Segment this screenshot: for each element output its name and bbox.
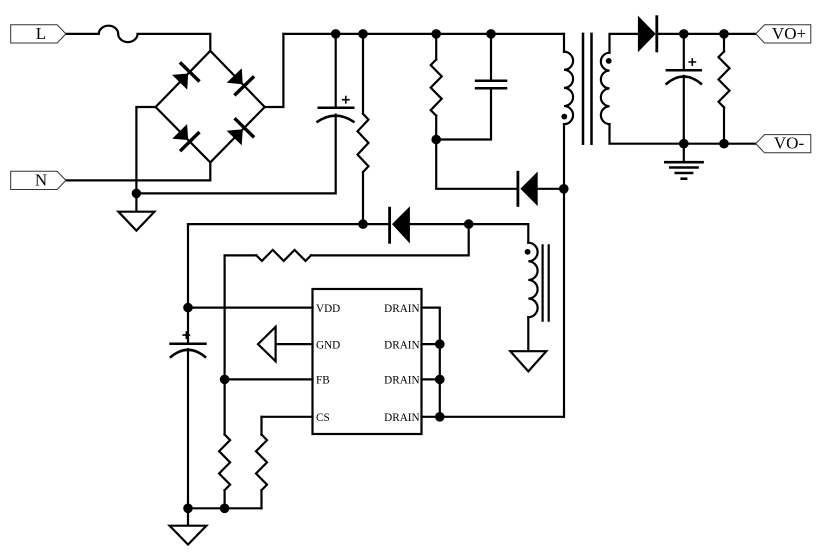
svg-text:VO+: VO+ bbox=[772, 24, 806, 43]
svg-text:VDD: VDD bbox=[316, 303, 340, 315]
svg-text:DRAIN: DRAIN bbox=[384, 339, 419, 351]
svg-text:DRAIN: DRAIN bbox=[384, 375, 419, 387]
svg-text:GND: GND bbox=[316, 339, 340, 351]
svg-text:L: L bbox=[36, 24, 46, 43]
svg-text:FB: FB bbox=[316, 375, 330, 387]
svg-text:CS: CS bbox=[316, 412, 330, 424]
svg-text:DRAIN: DRAIN bbox=[384, 303, 419, 315]
svg-text:N: N bbox=[35, 171, 47, 190]
svg-text:VO-: VO- bbox=[774, 134, 805, 153]
svg-text:DRAIN: DRAIN bbox=[384, 412, 419, 424]
